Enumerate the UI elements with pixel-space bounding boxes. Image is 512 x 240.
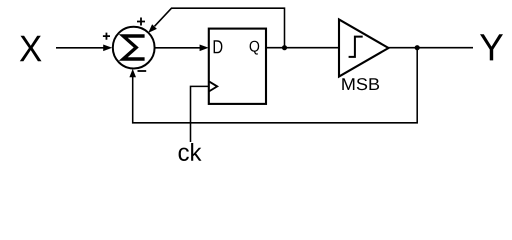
sigma symbol xyxy=(123,36,144,59)
wire bottom feedback from Y node to summer minus input xyxy=(133,48,418,123)
plus sign at summer top feedback input xyxy=(137,18,145,26)
label ck xyxy=(179,143,202,161)
wire Q output to comparator xyxy=(266,47,339,49)
wire top feedback from Q node to summer xyxy=(155,8,285,48)
node Y junction xyxy=(415,45,420,50)
plus sign at summer left input xyxy=(103,33,110,40)
arrowhead into summer left input xyxy=(103,45,112,52)
comparator MSB body xyxy=(339,20,389,77)
node Y output label xyxy=(480,34,503,60)
wire comparator to Y xyxy=(389,47,474,49)
minus sign at summer bottom input xyxy=(138,70,147,72)
summing junction circle xyxy=(113,27,155,69)
wire summer to flip-flop D input xyxy=(155,47,200,49)
step symbol inside comparator xyxy=(349,37,363,57)
wire X to summer xyxy=(56,47,104,49)
D flip-flop body xyxy=(209,29,266,104)
clock pin triangle xyxy=(209,81,217,91)
pin label Q xyxy=(250,41,260,55)
node Q junction xyxy=(282,45,287,50)
node X input label xyxy=(20,36,42,62)
arrowhead into summer minus input xyxy=(129,69,136,77)
pin label D xyxy=(214,40,223,53)
arrowhead into summer plus feedback input xyxy=(148,24,157,33)
wire clock input ck xyxy=(191,86,209,142)
arrowhead into D input xyxy=(200,45,209,52)
label MSB xyxy=(342,78,379,90)
